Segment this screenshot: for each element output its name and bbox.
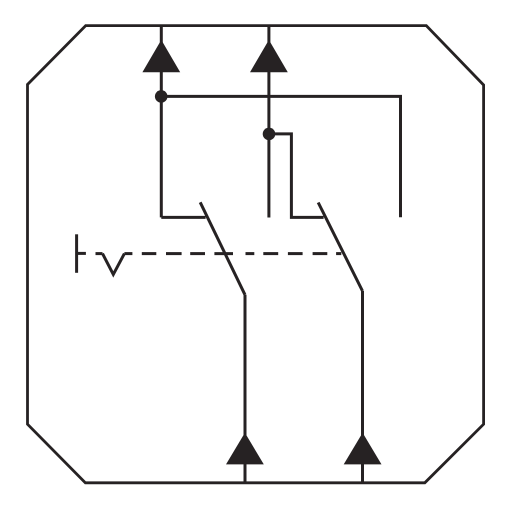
mechanical link dash 3 <box>142 252 157 255</box>
mechanical link V notch <box>103 254 125 275</box>
wire: switch 2 output vertical to bottom edge <box>361 291 364 483</box>
mechanical link dash 7 <box>246 252 255 255</box>
wire: horizontal branch from left junction over to right-side stub <box>161 96 400 217</box>
mechanical link dash 11 (ends at switch 2 blade) <box>336 252 341 255</box>
switch S1 blade <box>200 202 245 294</box>
mechanical link dash 2 <box>124 252 132 255</box>
arrow bottom-left (load arrow) <box>226 433 264 465</box>
mechanical link dash 5 <box>190 252 205 255</box>
manual actuator bar <box>75 234 78 272</box>
wire: switch 1 output vertical to bottom edge <box>244 295 247 483</box>
device outline octagon <box>28 26 484 483</box>
mechanical link dash 6 (crosses switch 1 blade) <box>214 252 233 255</box>
wire: second supply vertical from top edge down (crosses branch, no join) <box>267 26 270 218</box>
node: junction dot on second wire <box>263 128 276 141</box>
arrow bottom-right (load arrow) <box>344 433 382 465</box>
node: junction dot on left wire <box>155 90 168 103</box>
mechanical link dash 10 <box>313 252 328 255</box>
mechanical link dash 4 <box>166 252 182 255</box>
wire: left supply vertical from top edge down to switch 1 level <box>160 26 163 217</box>
switch S2 blade <box>318 203 362 291</box>
actuator stub <box>77 252 86 255</box>
arrow top-left (terminal arrow) <box>142 40 180 72</box>
mechanical link dash 1 <box>96 252 103 255</box>
wire: fixed contact lead of switch 1 <box>161 216 205 219</box>
arrow top-right (terminal arrow) <box>250 40 288 72</box>
mechanical link dash 9 <box>288 252 303 255</box>
mechanical link dash 8 <box>263 252 278 255</box>
wire: branch from second junction to fixed contact of switch 2 <box>269 134 324 218</box>
